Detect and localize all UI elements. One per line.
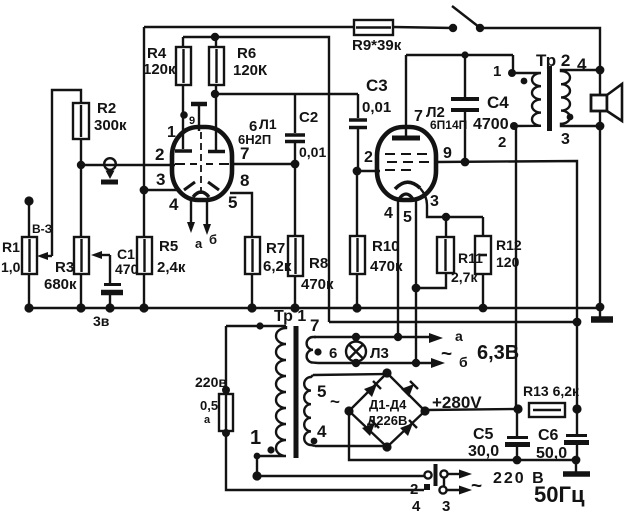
svg-text:220в: 220в [195, 374, 227, 390]
node marker HV bottom [311, 438, 318, 445]
node ground R3 [76, 303, 85, 312]
node B+ at R6 [211, 33, 219, 41]
svg-text:7: 7 [414, 108, 423, 125]
svg-text:0,5: 0,5 [200, 398, 218, 413]
node Тр2 terminal 1 [508, 69, 516, 77]
svg-text:4: 4 [577, 55, 587, 74]
node terminal 6 marker [314, 348, 321, 355]
cathode cup Л2 [399, 194, 413, 199]
svg-text:3: 3 [442, 498, 450, 514]
svg-text:4700: 4700 [473, 116, 509, 133]
node C5 ground [513, 456, 522, 465]
capacitor C1 470 electrolytic [101, 246, 139, 293]
svg-text:~: ~ [330, 392, 340, 411]
svg-text:3: 3 [156, 170, 165, 189]
capacitor C4 4700 [451, 55, 509, 162]
svg-text:Тр 1: Тр 1 [274, 308, 306, 325]
wire R10 to ground rail [356, 274, 358, 308]
svg-text:б: б [209, 232, 217, 247]
core Тр1 [294, 326, 299, 458]
svg-text:120к: 120к [143, 61, 176, 78]
node lamp top [352, 333, 360, 341]
wire R9 to switch [393, 27, 453, 28]
phase dot Тр2 primary [521, 78, 528, 85]
svg-text:Л1: Л1 [259, 116, 277, 132]
wire R5 to ground rail [143, 274, 145, 308]
svg-text:4: 4 [412, 498, 421, 514]
node Тр2 terminal 2 [510, 122, 518, 130]
svg-text:4: 4 [169, 195, 179, 214]
input jack connector symbol [101, 158, 118, 184]
anode plate Л2 [392, 136, 420, 141]
svg-text:R13 6,2к: R13 6,2к [523, 383, 580, 399]
node R12 ground [479, 304, 488, 313]
capacitor C5 30,0 [468, 409, 530, 460]
wire R8 to ground rail [294, 276, 296, 308]
wire bridge plus to +280V [425, 409, 518, 410]
resistor R7 6,2к [245, 237, 292, 275]
svg-text:~: ~ [441, 344, 452, 365]
svg-text:3: 3 [561, 131, 570, 148]
wire input to R1 [28, 201, 30, 237]
arrow mains b [447, 486, 472, 495]
svg-text:R4: R4 [147, 45, 167, 62]
primary winding Тр1 [258, 326, 286, 456]
svg-text:С3: С3 [366, 76, 388, 95]
secondary winding Тр2 [561, 70, 600, 126]
arrow mains a [448, 470, 472, 479]
wire C1 to ground rail [109, 295, 111, 308]
svg-text:4: 4 [317, 422, 327, 441]
wire speaker branch [599, 70, 601, 307]
node input terminal В-З [24, 196, 52, 236]
svg-text:R5: R5 [159, 238, 178, 255]
node lamp bottom [352, 359, 360, 367]
resistor R8 470к [288, 236, 334, 293]
wire R4 top to B+ [182, 37, 184, 47]
svg-text:300к: 300к [94, 117, 127, 134]
wire B+ top run to R4 R6 [183, 37, 329, 322]
svg-text:2,4к: 2,4к [157, 259, 186, 276]
wire cathode pin 3 Л2 [420, 188, 483, 217]
node cathode junction Л2 [442, 213, 450, 221]
wire Тр1 primary top lead [226, 325, 286, 327]
wire R3 to ground rail [80, 274, 82, 308]
diode bridge Д1-Д4 Д226В [344, 368, 429, 451]
heater arrow б of Л1 [203, 201, 217, 247]
svg-text:б: б [459, 354, 468, 370]
wire R4 bottom to anode pin 1 [182, 85, 184, 149]
wire mains lead a [257, 475, 424, 477]
node ground R5 [139, 303, 148, 312]
wire winding 5 to bridge top [313, 374, 387, 375]
svg-text:50,0: 50,0 [536, 445, 567, 462]
svg-text:Д1-Д4: Д1-Д4 [369, 397, 407, 412]
wire heater lead a [314, 336, 432, 338]
svg-text:5: 5 [228, 193, 237, 212]
svg-text:2: 2 [410, 481, 418, 498]
cathode dashes Л1 [184, 182, 219, 190]
svg-text:8: 8 [240, 171, 249, 190]
wire pin 7 to C2 bottom [231, 163, 295, 165]
wire grid node to tube Л2 pin 2 [357, 170, 380, 172]
grid dashes Л1 [175, 163, 229, 165]
wire pin 7 node to R8 [294, 164, 296, 236]
svg-text:а: а [455, 328, 463, 344]
svg-text:7: 7 [310, 316, 319, 335]
node speaker top [596, 66, 605, 75]
node anode pin 6 junction [211, 90, 219, 98]
svg-text:1: 1 [167, 124, 176, 141]
node +280V [513, 404, 522, 413]
fuse Пр 0,5 [200, 394, 233, 431]
svg-text:6,3В: 6,3В [477, 342, 519, 364]
cathode cup Л1 [193, 192, 209, 197]
node R11 return [412, 284, 421, 293]
resistor R6 120К [209, 45, 268, 85]
resistor R9* 39к [352, 20, 402, 54]
svg-text:R2: R2 [97, 100, 116, 117]
wire grid node down to R3 [80, 165, 82, 237]
wire R6 bottom to anode pin 6 [215, 85, 217, 150]
wire R2 to grid node [80, 139, 82, 165]
ground symbol right [591, 307, 613, 320]
svg-text:1: 1 [250, 427, 261, 449]
wire primary bottom to mains [256, 456, 258, 476]
wire fuse branch [225, 326, 227, 391]
node ground R8 [290, 303, 299, 312]
node grid pin 7 junction [291, 160, 300, 169]
wire R1 wiper to R2 top [52, 90, 81, 256]
svg-text:50Гц: 50Гц [534, 482, 585, 507]
svg-text:В-З: В-З [32, 222, 52, 236]
grid dashes Л2 [385, 154, 429, 170]
node ground rail right end [596, 303, 605, 312]
node C6 ground [572, 456, 581, 465]
wire screen pin 9 to B+ column [436, 161, 577, 409]
resistor R4 120к [143, 45, 191, 85]
svg-text:R8: R8 [309, 255, 328, 272]
wire R3 wiper to C1 [109, 255, 111, 283]
svg-text:30,0: 30,0 [468, 443, 499, 460]
node B+ rail right [573, 318, 582, 327]
svg-text:С2: С2 [299, 109, 318, 126]
core Тр2 [547, 66, 552, 131]
svg-text:а: а [204, 414, 211, 426]
svg-text:С1: С1 [117, 246, 135, 262]
wire heater pin 4 Л2 down [397, 200, 399, 337]
node grid Л2 junction [353, 167, 362, 176]
svg-text:6: 6 [329, 345, 337, 362]
wire R1 to ground rail [28, 274, 30, 308]
resistor R10 470к [350, 236, 403, 275]
tube Л2 6П14П envelope [377, 127, 436, 200]
svg-text:3в: 3в [93, 313, 110, 329]
wire R7 to ground rail [251, 274, 253, 308]
wire anode pin 7 Л2 [405, 55, 407, 137]
wire pin 3 to tube [144, 189, 177, 191]
resistor R5 2,4к [137, 237, 186, 276]
node ground R1 [24, 303, 33, 312]
svg-text:R9*39к: R9*39к [352, 37, 402, 54]
wiper arrow of R3 [91, 251, 110, 259]
arrow heater lead a [429, 333, 443, 343]
svg-text:5: 5 [403, 209, 412, 226]
node C4 bottom on screen wire [461, 158, 470, 167]
svg-text:а: а [195, 236, 203, 251]
shield bar pin 9 [189, 104, 207, 131]
svg-text:Л3: Л3 [370, 345, 389, 362]
wire pin 8 to R7 [230, 193, 252, 237]
svg-text:0,01: 0,01 [299, 144, 326, 160]
svg-text:~: ~ [471, 476, 482, 497]
svg-text:2: 2 [364, 149, 373, 166]
phase dot Тр2 secondary [567, 114, 574, 121]
node pin 1 marker [180, 111, 188, 119]
node cathode Л1 pin 3 junction [140, 186, 149, 195]
arrow heater lead b [431, 358, 445, 368]
wire R6 top to B+ [215, 37, 217, 47]
svg-text:R6: R6 [237, 45, 256, 62]
switch feedback [449, 6, 484, 32]
potentiometer R3 680к [44, 237, 89, 293]
svg-text:470: 470 [115, 261, 139, 277]
node ground R7 [247, 303, 256, 312]
tube Л1 internal divider [200, 132, 202, 196]
svg-text:Тр 2: Тр 2 [536, 51, 570, 70]
lamp Л3 [346, 337, 389, 363]
resistor R11 2,7к [416, 217, 483, 288]
anode plate triode 1 [175, 149, 192, 153]
svg-text:120К: 120К [233, 62, 268, 79]
svg-text:R3: R3 [55, 259, 74, 276]
svg-text:С6: С6 [538, 427, 559, 444]
node heater pin5 Л2 [412, 359, 420, 367]
svg-text:2: 2 [155, 145, 164, 164]
wire feedback line down left side to cathode node [143, 27, 145, 237]
svg-text:9: 9 [443, 145, 452, 162]
wire switch to speaker top [480, 28, 600, 70]
node marker primary bottom [267, 446, 274, 453]
capacitor C3 0,01 [349, 76, 391, 171]
node fuse top [222, 386, 230, 394]
wire heater pin 5 Л2 down [415, 200, 417, 363]
HV winding Тр1 [304, 375, 315, 446]
node mains lead a [252, 471, 261, 480]
node heater pin4 Л2 [394, 333, 402, 341]
svg-text:0,01: 0,01 [362, 99, 391, 116]
svg-text:R7: R7 [266, 240, 285, 257]
heater arrow a of Л1 [187, 201, 203, 251]
node fuse bottom [222, 429, 230, 437]
node R13 right [572, 404, 581, 413]
speaker [591, 84, 622, 121]
resistor R12 120 [475, 217, 522, 308]
svg-text:R1: R1 [2, 239, 20, 255]
wire anode pin 6 to coupling caps [215, 93, 358, 95]
node C4 top [461, 51, 468, 58]
svg-text:4: 4 [384, 205, 393, 222]
svg-text:Д226В: Д226В [367, 413, 407, 428]
svg-text:7: 7 [240, 144, 249, 163]
svg-text:R12: R12 [496, 237, 522, 253]
svg-text:3: 3 [430, 193, 439, 210]
svg-text:6П14П: 6П14П [430, 118, 467, 132]
resistor R2 300к [73, 100, 127, 139]
svg-text:R10: R10 [372, 238, 400, 255]
svg-text:R11: R11 [458, 250, 483, 266]
wire winding 4 to bridge bottom [315, 445, 387, 447]
node primary bottom corner [254, 453, 261, 460]
ground symbol bottom right [563, 460, 590, 474]
wire bridge minus to ground bus [349, 411, 575, 460]
svg-text:С4: С4 [487, 93, 509, 112]
tube Л1 6Н2П envelope [172, 127, 232, 200]
svg-text:2: 2 [498, 134, 506, 151]
wire Тр2 primary terminal 1 [512, 55, 514, 73]
wire ground rail [29, 307, 600, 309]
resistor R13 6,2к [523, 383, 580, 417]
wire anode Л2 to Тр2 [406, 54, 513, 56]
capacitor C2 0,01 [285, 94, 326, 164]
svg-text:С5: С5 [473, 426, 494, 443]
wire grid node to R10 [356, 171, 358, 236]
potentiometer R1 1,0 [1, 237, 37, 275]
node ground C1 [105, 303, 114, 312]
wire heater lead b [318, 362, 433, 364]
wire feedback rail left of R9 [144, 26, 354, 28]
svg-text:1,0: 1,0 [1, 259, 21, 275]
svg-text:+280V: +280V [432, 393, 482, 412]
capacitor C6 50,0 [536, 409, 589, 462]
wire B+ rail to right column [329, 321, 577, 323]
node speaker bottom [596, 122, 605, 131]
wiper arrow of R1 [37, 252, 52, 260]
wire grid line to tube Л1 pin 2 [81, 164, 175, 166]
heater winding Тр1 [307, 337, 318, 363]
wire fuse to mains lead b [226, 433, 424, 490]
svg-text:680к: 680к [44, 276, 77, 293]
mains connector [410, 464, 450, 514]
node marker primary top [256, 322, 263, 329]
wire Тр2 terminal 2 to +280V [515, 126, 517, 409]
node ground R10 [352, 303, 361, 312]
anode plate triode 2 [208, 150, 225, 154]
primary winding Тр2 [513, 73, 541, 126]
cathode Л2 [395, 182, 420, 189]
svg-text:9: 9 [189, 115, 195, 127]
svg-text:1: 1 [493, 63, 501, 80]
svg-text:5: 5 [317, 382, 326, 401]
node grid Л1 junction [77, 161, 85, 169]
